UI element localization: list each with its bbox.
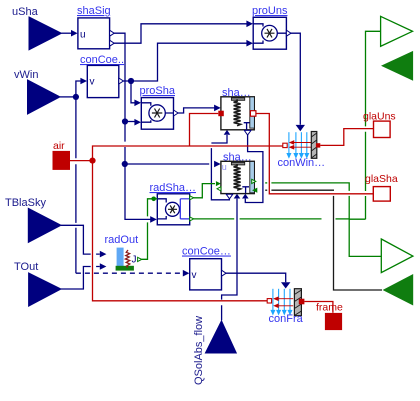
arrow proUns.u2 <box>246 40 253 47</box>
wire sha1 glass port down <box>190 114 219 147</box>
svg-text:TBlaSky: TBlaSky <box>5 197 46 209</box>
node conCoe1 out junction <box>128 78 134 84</box>
svg-text:uSha: uSha <box>12 6 39 18</box>
wire proSha.y to sha1 <box>177 108 215 113</box>
port conCoe2.y <box>222 270 227 276</box>
port sha2 JIn green arrow left <box>216 181 221 186</box>
port sha1 bottom T out <box>244 130 251 135</box>
svg-text:frame: frame <box>316 302 343 314</box>
arrow sha1 bottom up <box>224 130 231 135</box>
arrow proSha.u1 <box>134 100 141 107</box>
wire black dashdot dot <box>265 189 267 191</box>
wire shaSig.yCom to proUns u1 <box>110 24 247 43</box>
node vWin junction <box>73 94 79 100</box>
sha1 glass stripe <box>250 97 255 128</box>
wire radSha out1 to sha2 JIn <box>193 184 216 198</box>
conFra convection arrows <box>271 289 292 314</box>
wire trunk down to sha2 bottom <box>211 148 229 200</box>
node proSha u2 junction <box>122 118 128 124</box>
svg-text:radSha…: radSha… <box>150 182 196 194</box>
wire dash segment y219 <box>336 218 350 220</box>
conWin pane <box>311 132 317 159</box>
node sha2 u junction <box>122 161 128 167</box>
arrow proSha.u2 <box>134 119 141 126</box>
connector JOutSha <box>381 239 413 273</box>
sha2 glass stripe <box>250 162 255 193</box>
conFra red arrows <box>274 297 293 308</box>
svg-text:conWin…: conWin… <box>278 157 326 169</box>
svg-text:proSha: proSha <box>140 85 176 97</box>
wire branch to sha2 u <box>125 163 209 165</box>
wire radSha out2 long line <box>193 218 322 220</box>
radOut sky rect <box>117 248 124 268</box>
wire trunk to sha1 bottom <box>211 135 227 143</box>
svg-text:vWin: vWin <box>14 69 38 81</box>
arrow conCoe2.v <box>183 270 190 277</box>
svg-text:conFra: conFra <box>269 313 304 325</box>
svg-text:radOut: radOut <box>105 234 139 246</box>
port radSha.JOut1 <box>190 196 194 200</box>
svg-text:u: u <box>222 162 227 172</box>
port sha2 bottom T in triangle <box>226 194 233 199</box>
svg-text:conCoe..: conCoe.. <box>80 54 124 66</box>
wire TOut to radOut <box>61 267 100 290</box>
arrow sha2.u <box>214 161 221 168</box>
port conWin solid square <box>316 143 320 147</box>
port shaSig.y <box>110 30 115 36</box>
wire TBlaSky to radOut <box>61 225 100 254</box>
wire sha1 T out to sha2 <box>245 135 263 203</box>
conFra pane <box>294 289 301 316</box>
wire shaSig.y down trunk <box>110 33 151 219</box>
wire corner to JOutUns trunk <box>349 31 380 219</box>
wire uSha to shaSig <box>61 32 73 34</box>
wire sha2 JIn black to JInSha <box>271 190 382 290</box>
port radOut.JOut <box>138 257 142 261</box>
conWin convection arrows <box>287 132 308 157</box>
sha1 coil <box>234 99 241 126</box>
port sha2 JOut right triangle <box>252 179 256 183</box>
svg-text:QSolAbs_flow: QSolAbs_flow <box>193 316 205 385</box>
wire branch to proSha u1 <box>131 81 136 103</box>
svg-text:v: v <box>90 77 95 88</box>
sha2 shade bar <box>231 162 244 165</box>
arrow conFra Gc down <box>281 282 290 288</box>
port sha2 JOut left triangle <box>217 187 221 191</box>
sha2 coil <box>234 164 241 190</box>
arrow conCoe1.v <box>80 78 87 85</box>
wire dashdot dot <box>265 182 267 184</box>
wire conWin to glaUns <box>320 129 373 146</box>
wire vWin dashed to conCoe2 <box>76 272 183 274</box>
port shaSig.yCom <box>110 40 115 46</box>
wire sha1 right to glaSha <box>256 114 373 194</box>
port radSha.JOut2 <box>190 217 194 221</box>
wire branch to proSha u2 <box>125 121 136 123</box>
port conFra air square <box>267 299 271 303</box>
wire sha2 QAbs to QSolAbs triangle <box>222 199 237 321</box>
arrow sha2 bottom right up <box>242 194 249 199</box>
connector JInUns <box>381 51 413 81</box>
radOut figure <box>125 250 129 268</box>
wire vWin down trunk <box>75 97 77 273</box>
wire proUns.y to conWin Gc <box>286 33 300 125</box>
port conCoe1.y <box>119 78 124 84</box>
svg-text:glaSha: glaSha <box>365 173 398 185</box>
node radSha JIn junction <box>151 197 156 202</box>
connector JInSha <box>383 274 414 306</box>
port proSha.y <box>174 110 179 116</box>
arrow sha2 bottom mid up <box>234 194 241 199</box>
arrow conWin Gc down <box>296 125 305 131</box>
wire sha2 JOut dashdot to corner <box>271 183 381 257</box>
svg-text:air: air <box>53 140 65 152</box>
svg-text:proUns: proUns <box>252 5 288 17</box>
arrow sha1.u <box>214 105 221 112</box>
svg-text:v: v <box>192 270 197 281</box>
arrow proUns.u1 <box>246 21 253 28</box>
wire conCoe1.y to proUns u2 <box>122 43 247 81</box>
wire air to junction <box>70 160 93 162</box>
svg-text:conCoe…: conCoe… <box>182 246 231 258</box>
svg-text:u: u <box>80 30 86 41</box>
wire conFra to frame <box>304 302 333 313</box>
wire radOut.JOut to radSha <box>142 199 153 259</box>
conWin red arrows <box>290 141 312 149</box>
svg-text:shaSig: shaSig <box>77 5 111 17</box>
wire air to conWin <box>93 146 283 161</box>
wire air down to conFra <box>93 161 268 301</box>
sha1 T sensor <box>244 123 250 130</box>
node air junction <box>89 158 95 164</box>
wire conCoe2.y to conFra Gc <box>222 273 286 282</box>
port sha1 red square right <box>250 111 256 117</box>
arrow radOut.u1 <box>100 251 107 258</box>
wire vWin up to conCoe1 <box>76 81 82 97</box>
port conWin air square <box>283 143 287 147</box>
arrow radOut.u2 <box>100 263 107 270</box>
arrow radSha.u <box>150 216 157 223</box>
port sha1 red square left <box>218 111 224 117</box>
wire vWin to junction <box>60 96 76 98</box>
port proUns.y <box>286 30 291 36</box>
sha2 T sensor <box>242 187 249 194</box>
svg-text:J: J <box>132 255 137 266</box>
sha1 shade bar <box>231 98 244 101</box>
port radSha.JIn stub <box>152 198 157 200</box>
port conFra solid square <box>299 299 305 305</box>
svg-text:TOut: TOut <box>14 261 38 273</box>
arrow shaSig.u <box>71 30 78 37</box>
port sha2 JIn green arrow right <box>252 188 257 193</box>
radOut ground <box>116 266 134 271</box>
